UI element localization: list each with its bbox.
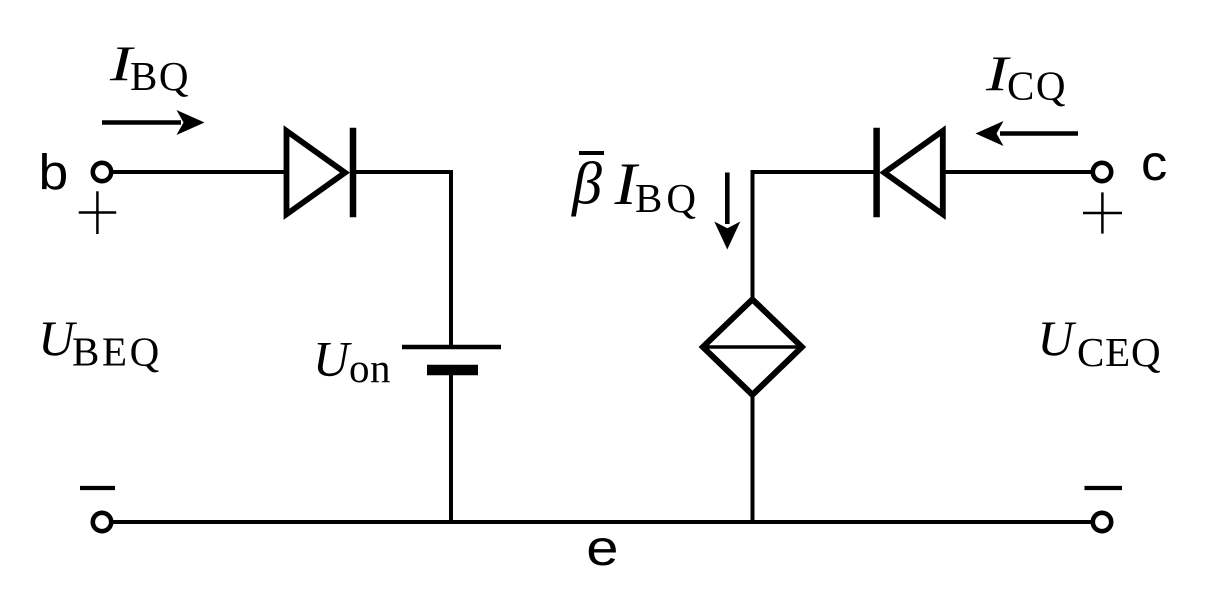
svg-text:CQ: CQ xyxy=(1007,63,1067,109)
svg-text:BEQ: BEQ xyxy=(72,328,162,374)
svg-text:β: β xyxy=(571,151,602,217)
svg-text:BQ: BQ xyxy=(130,53,190,99)
svg-text:on: on xyxy=(349,345,391,391)
svg-text:U: U xyxy=(313,330,352,386)
svg-text:c: c xyxy=(1141,135,1167,191)
svg-text:CEQ: CEQ xyxy=(1077,329,1161,375)
svg-text:U: U xyxy=(1038,310,1077,366)
svg-text:e: e xyxy=(586,521,618,576)
svg-text:BQ: BQ xyxy=(635,175,700,221)
svg-text:b: b xyxy=(39,144,69,200)
